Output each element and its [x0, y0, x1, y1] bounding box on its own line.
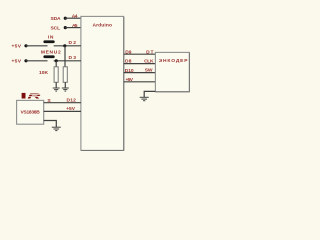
wire +5V to switch MENU2	[26, 60, 48, 62]
wire encoder GND	[144, 91, 155, 97]
wire D9 to DT	[124, 53, 156, 55]
svg-text:A5: A5	[72, 23, 78, 29]
svg-text:Arduino: Arduino	[93, 22, 113, 28]
svg-text:SW: SW	[145, 67, 153, 73]
svg-text:IN: IN	[48, 35, 54, 41]
wire VS1838B S to D12	[44, 102, 81, 104]
svg-text:D8: D8	[125, 59, 132, 65]
svg-text:ЭНКОДЕР: ЭНКОДЕР	[159, 58, 189, 64]
switch IN (pushbutton)	[43, 35, 54, 44]
svg-text:SDA: SDA	[51, 16, 62, 22]
wire SDA to A4	[65, 17, 81, 19]
wire R2 to ground	[55, 82, 57, 88]
svg-text:D9: D9	[125, 49, 132, 55]
node junction D3	[55, 59, 58, 62]
svg-text:D12: D12	[67, 97, 77, 103]
ground (VS1838B)	[52, 127, 61, 130]
resistor R1 (10K pull-down of D2)	[63, 67, 67, 83]
wire VS1838B GND pin	[44, 121, 57, 128]
wire +5V to switch IN	[26, 45, 48, 47]
svg-text:10K: 10K	[39, 70, 48, 76]
svg-text:VS1838B: VS1838B	[21, 109, 41, 115]
ground (below R1)	[62, 88, 69, 91]
svg-text:+5V: +5V	[12, 43, 22, 49]
switch MENU2 (pushbutton)	[41, 49, 61, 58]
wire switch MENU2 to D3	[54, 60, 81, 62]
node +5V (row MENU2)	[12, 58, 28, 64]
arduino U1	[81, 16, 124, 150]
wire VS1838B Vcc to +5V	[44, 110, 81, 112]
wire SCL to A5	[65, 27, 81, 29]
IR receiver U2 VS1838B	[17, 91, 44, 124]
node +5V (row IN)	[12, 43, 28, 49]
resistor R2 (10K pull-down of D3)	[54, 67, 58, 83]
node SDA	[51, 16, 67, 22]
svg-text:D10: D10	[125, 68, 134, 74]
wire D10 to SW	[124, 72, 156, 74]
ground (below R2)	[53, 88, 60, 91]
svg-text:A4: A4	[72, 14, 78, 20]
svg-text:SCL: SCL	[51, 26, 61, 32]
svg-text:+5V: +5V	[12, 58, 22, 64]
wire +5V to encoder	[124, 81, 156, 83]
wire R1 to ground	[64, 82, 66, 88]
encoder module	[155, 52, 189, 91]
svg-text:+5V: +5V	[126, 77, 134, 83]
svg-text:D2: D2	[69, 40, 77, 46]
svg-text:CLK: CLK	[144, 59, 154, 65]
svg-text:MENU2: MENU2	[41, 49, 61, 55]
wire D8 to CLK	[124, 63, 156, 65]
svg-text:R: R	[27, 91, 40, 100]
svg-text:+5V: +5V	[66, 106, 76, 112]
wire D2 junction to resistor R1	[64, 46, 66, 67]
wire D3 junction to resistor R2	[55, 61, 57, 67]
wire switch IN to D2	[54, 45, 81, 47]
node SCL	[51, 26, 67, 32]
svg-text:DT: DT	[146, 49, 153, 55]
node junction D2	[63, 44, 66, 47]
ground (encoder)	[140, 97, 149, 100]
svg-text:D3: D3	[69, 55, 77, 61]
